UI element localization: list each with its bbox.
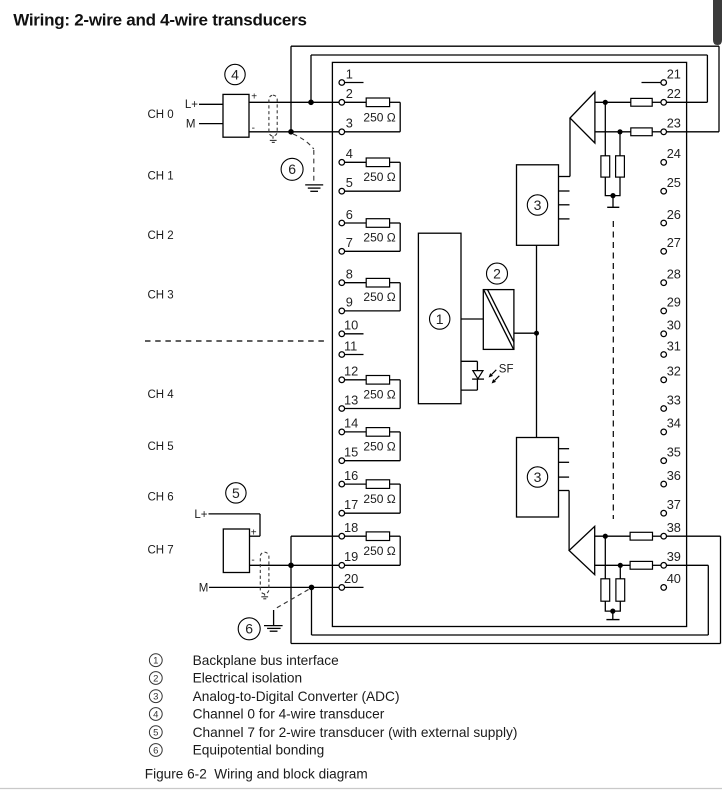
svg-text:22: 22 bbox=[667, 86, 681, 101]
svg-text:250 Ω: 250 Ω bbox=[363, 544, 395, 558]
svg-text:17: 17 bbox=[344, 497, 358, 512]
svg-text:11: 11 bbox=[344, 338, 357, 353]
svg-text:1: 1 bbox=[153, 656, 158, 667]
svg-text:32: 32 bbox=[667, 364, 681, 379]
svg-text:33: 33 bbox=[667, 392, 681, 407]
svg-text:28: 28 bbox=[667, 267, 681, 282]
svg-text:16: 16 bbox=[344, 468, 358, 483]
svg-text:Analog-to-Digital Converter (A: Analog-to-Digital Converter (ADC) bbox=[193, 689, 400, 704]
svg-text:5: 5 bbox=[153, 728, 158, 739]
svg-text:14: 14 bbox=[344, 416, 358, 431]
svg-text:L+: L+ bbox=[185, 99, 198, 111]
svg-text:+: + bbox=[251, 527, 257, 538]
svg-text:Wiring: 2-wire and 4-wire tran: Wiring: 2-wire and 4-wire transducers bbox=[13, 11, 306, 30]
svg-text:250 Ω: 250 Ω bbox=[363, 230, 395, 244]
svg-text:27: 27 bbox=[667, 235, 681, 250]
svg-text:L+: L+ bbox=[194, 509, 207, 521]
svg-text:12: 12 bbox=[344, 364, 358, 379]
svg-text:3: 3 bbox=[346, 116, 353, 131]
svg-text:CH 4: CH 4 bbox=[148, 389, 175, 401]
svg-text:250 Ω: 250 Ω bbox=[363, 290, 395, 304]
svg-text:M: M bbox=[186, 119, 196, 131]
svg-text:250 Ω: 250 Ω bbox=[363, 110, 395, 124]
svg-text:19: 19 bbox=[344, 549, 358, 564]
svg-text:1: 1 bbox=[436, 311, 444, 327]
svg-text:2: 2 bbox=[153, 673, 158, 684]
svg-text:30: 30 bbox=[667, 318, 681, 333]
svg-text:40: 40 bbox=[667, 571, 681, 586]
svg-text:7: 7 bbox=[346, 235, 353, 250]
svg-text:6: 6 bbox=[245, 621, 253, 637]
svg-text:5: 5 bbox=[232, 485, 240, 501]
svg-text:13: 13 bbox=[344, 392, 358, 407]
svg-text:CH 7: CH 7 bbox=[148, 545, 174, 557]
svg-text:M: M bbox=[199, 582, 209, 594]
svg-text:10: 10 bbox=[344, 318, 358, 333]
svg-text:Backplane bus interface: Backplane bus interface bbox=[193, 653, 339, 668]
svg-text:31: 31 bbox=[667, 338, 681, 353]
svg-text:4: 4 bbox=[231, 66, 239, 82]
svg-text:Channel 7 for 2-wire transduce: Channel 7 for 2-wire transducer (with ex… bbox=[193, 725, 518, 740]
svg-text:250 Ω: 250 Ω bbox=[363, 170, 395, 184]
svg-text:38: 38 bbox=[667, 520, 681, 535]
svg-text:29: 29 bbox=[667, 295, 681, 310]
svg-text:CH 5: CH 5 bbox=[148, 441, 174, 453]
svg-text:4: 4 bbox=[346, 146, 353, 161]
svg-text:Equipotential bonding: Equipotential bonding bbox=[193, 743, 325, 758]
svg-text:CH 3: CH 3 bbox=[148, 290, 174, 302]
svg-text:2: 2 bbox=[493, 266, 501, 282]
svg-text:15: 15 bbox=[344, 445, 358, 460]
svg-text:250 Ω: 250 Ω bbox=[363, 387, 395, 401]
svg-text:2: 2 bbox=[346, 86, 353, 101]
svg-text:SF: SF bbox=[499, 364, 514, 376]
svg-text:1: 1 bbox=[346, 66, 353, 81]
svg-text:3: 3 bbox=[534, 197, 542, 213]
svg-text:250 Ω: 250 Ω bbox=[363, 440, 395, 454]
svg-text:-: - bbox=[252, 123, 255, 134]
svg-text:20: 20 bbox=[344, 571, 358, 586]
svg-text:21: 21 bbox=[667, 66, 681, 81]
svg-text:26: 26 bbox=[667, 207, 681, 222]
svg-text:CH 2: CH 2 bbox=[148, 230, 174, 242]
svg-text:-: - bbox=[251, 555, 254, 566]
svg-text:Figure 6-2 Wiring and block d: Figure 6-2 Wiring and block diagram bbox=[145, 766, 368, 781]
svg-text:39: 39 bbox=[667, 549, 681, 564]
svg-text:250 Ω: 250 Ω bbox=[363, 492, 395, 506]
svg-text:9: 9 bbox=[346, 295, 353, 310]
svg-text:+: + bbox=[251, 91, 257, 102]
svg-text:6: 6 bbox=[153, 745, 158, 756]
svg-text:35: 35 bbox=[667, 445, 681, 460]
svg-text:Electrical isolation: Electrical isolation bbox=[193, 671, 303, 686]
svg-text:3: 3 bbox=[153, 692, 158, 703]
svg-text:CH 1: CH 1 bbox=[148, 171, 174, 183]
svg-text:23: 23 bbox=[667, 116, 681, 131]
svg-text:37: 37 bbox=[667, 497, 681, 512]
svg-text:CH 0: CH 0 bbox=[148, 109, 174, 121]
svg-text:CH 6: CH 6 bbox=[148, 492, 174, 504]
svg-text:Channel 0 for 4-wire transduce: Channel 0 for 4-wire transducer bbox=[193, 707, 385, 722]
svg-text:34: 34 bbox=[667, 416, 681, 431]
svg-text:5: 5 bbox=[346, 175, 353, 190]
svg-text:6: 6 bbox=[288, 161, 296, 177]
svg-text:24: 24 bbox=[667, 146, 681, 161]
svg-text:8: 8 bbox=[346, 267, 353, 282]
svg-text:18: 18 bbox=[344, 520, 358, 535]
svg-text:36: 36 bbox=[667, 468, 681, 483]
svg-text:3: 3 bbox=[534, 469, 542, 485]
svg-text:6: 6 bbox=[346, 207, 353, 222]
svg-text:4: 4 bbox=[153, 709, 158, 720]
svg-text:25: 25 bbox=[667, 175, 681, 190]
